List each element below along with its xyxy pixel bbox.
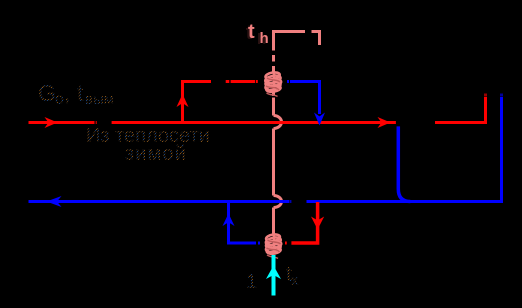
svg-text:G: G [38, 80, 56, 106]
svg-text:1: 1 [246, 271, 257, 293]
svg-text:зимой: зимой [125, 143, 187, 165]
svg-text:х: х [291, 272, 299, 289]
svg-text:t: t [77, 80, 84, 106]
svg-text:h: h [260, 30, 269, 47]
svg-text:о: о [55, 91, 64, 108]
svg-text:вым: вым [85, 91, 114, 108]
svg-text:t: t [248, 21, 255, 43]
svg-text:,: , [64, 80, 70, 106]
